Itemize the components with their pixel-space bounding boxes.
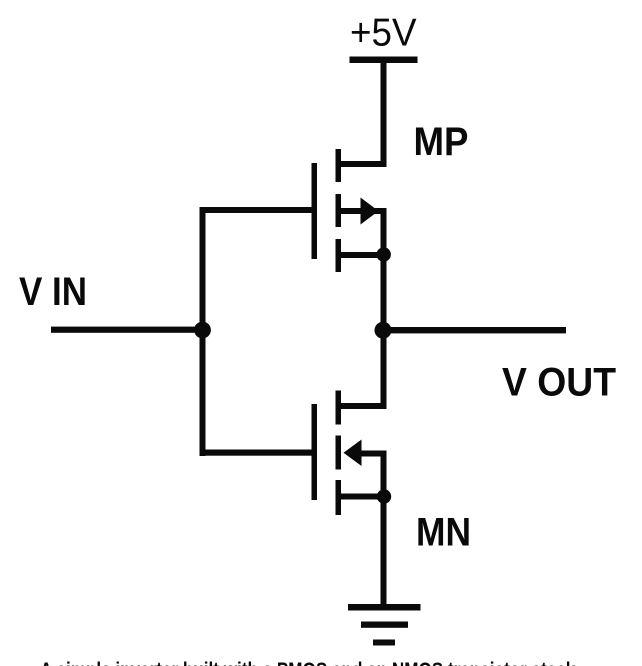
wire VDD rail to MP source terminal [381,60,387,167]
transistor MP channel dash bottom [336,239,342,272]
transistor MN channel dash bottom [336,480,342,515]
transistor MN bottom terminal wire [341,494,384,500]
transistor MP top terminal wire [338,161,387,167]
wire MN source to ground [381,497,387,605]
wire V IN to input node [51,327,202,333]
wire input node vertical bus [200,207,206,456]
wire input bus to MP gate [200,207,314,213]
svg-text:V IN: V IN [19,270,87,314]
wire input bus to MN gate [200,450,314,456]
transistor MP bottom terminal wire [341,252,384,258]
wire output node to V OUT [383,327,566,333]
svg-text:MP: MP [414,120,469,164]
transistor MP gate bar [312,163,318,259]
node V OUT junction dot [375,322,392,339]
ground symbol bar 3 [373,640,395,646]
svg-text:MN: MN [416,511,471,555]
transistor MN channel dash middle [336,436,342,470]
ground symbol bar 2 [361,622,408,628]
transistor MP bulk wire with arrow [341,208,387,214]
transistor MP channel dash top [336,149,342,182]
svg-text:A simple inverter built with a: A simple inverter built with a PMOS and … [40,659,580,666]
transistor MP channel dash middle [336,194,342,227]
svg-text:V OUT: V OUT [502,361,616,405]
power rail VDD [350,57,418,64]
transistor MN top terminal wire [338,403,387,409]
junction dot MP source-bulk [377,247,391,261]
wire output node to MN drain terminal [381,330,387,409]
svg-text:+5V: +5V [350,12,417,55]
junction dot MN source-bulk [377,489,391,503]
wire MP to output node [381,255,387,331]
transistor MN gate bar [312,404,318,500]
transistor MN channel dash top [336,391,342,425]
ground symbol bar 1 [348,604,421,611]
transistor MN bulk wire with arrow [344,440,362,467]
node V IN junction dot [194,322,211,339]
